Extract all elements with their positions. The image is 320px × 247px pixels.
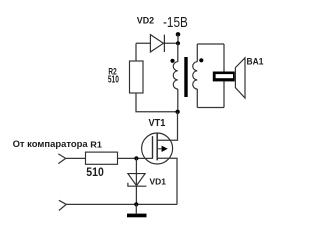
svg-text:От компаратора: От компаратора — [13, 138, 89, 149]
transformer core — [184, 57, 187, 97]
resistor R2 — [130, 61, 144, 93]
wire transformer primary top lead — [177, 43, 179, 61]
wire drain vertical — [157, 112, 177, 141]
label R1 value 510 — [86, 167, 104, 179]
svg-text:BA1: BA1 — [247, 56, 264, 66]
junction dot ground node — [134, 202, 138, 206]
wire transformer primary bottom lead — [177, 89, 179, 112]
junction dot drain node — [175, 110, 179, 114]
wire transformer secondary bottom lead — [196, 89, 198, 108]
svg-text:VD1: VD1 — [150, 176, 167, 186]
transformer secondary winding — [193, 62, 198, 89]
wire speaker loop right — [223, 44, 225, 108]
transformer primary winding — [173, 62, 178, 89]
zener diode VD1 — [128, 174, 146, 187]
wire bottom rail — [66, 203, 177, 205]
svg-text:-15В: -15В — [163, 15, 188, 31]
wire top rail from R2 riser to -15V junction — [136, 42, 178, 44]
wire R2 riser — [135, 43, 137, 61]
wire R1 to gate junction — [118, 157, 153, 159]
junction dot gate node — [134, 156, 138, 160]
resistor R1 — [86, 152, 118, 164]
label BA1 — [247, 56, 264, 66]
wire speaker loop top — [197, 43, 224, 45]
wire R2 bottom to drain junction — [136, 93, 178, 112]
transistor VT1 — [142, 133, 173, 165]
wire gate node down through VD1 — [135, 158, 137, 204]
input chevron 2 — [59, 200, 66, 210]
label VD1 — [150, 176, 167, 186]
label -15B supply — [163, 15, 188, 31]
speaker BA1 horn — [235, 58, 245, 98]
svg-text:VT1: VT1 — [149, 118, 166, 129]
wire transformer secondary top lead — [196, 44, 198, 62]
ground — [127, 204, 147, 217]
wire source vertical — [157, 158, 177, 204]
label R2 value 510 — [108, 75, 119, 86]
svg-text:VD2: VD2 — [137, 15, 154, 25]
input chevron 1 — [58, 154, 65, 164]
junction dot top rail / primary — [176, 41, 180, 45]
label From comparator — [13, 138, 89, 149]
speaker BA1 coil box — [213, 72, 235, 82]
transformer secondary phase dot — [199, 58, 203, 62]
terminal dot -15V — [176, 32, 181, 37]
wire stub terminal to junction — [177, 34, 179, 43]
label R1 — [90, 139, 102, 149]
wire speaker loop bottom — [197, 107, 224, 109]
svg-text:R1: R1 — [90, 139, 102, 149]
svg-text:510: 510 — [86, 167, 104, 179]
svg-text:510: 510 — [108, 75, 119, 86]
transformer primary phase dot — [170, 59, 174, 63]
diode VD2 — [150, 35, 164, 52]
label VD2 — [137, 15, 154, 25]
label VT1 — [149, 118, 166, 129]
label R2 — [108, 67, 116, 77]
wire chevron1 to R1 — [66, 157, 86, 159]
